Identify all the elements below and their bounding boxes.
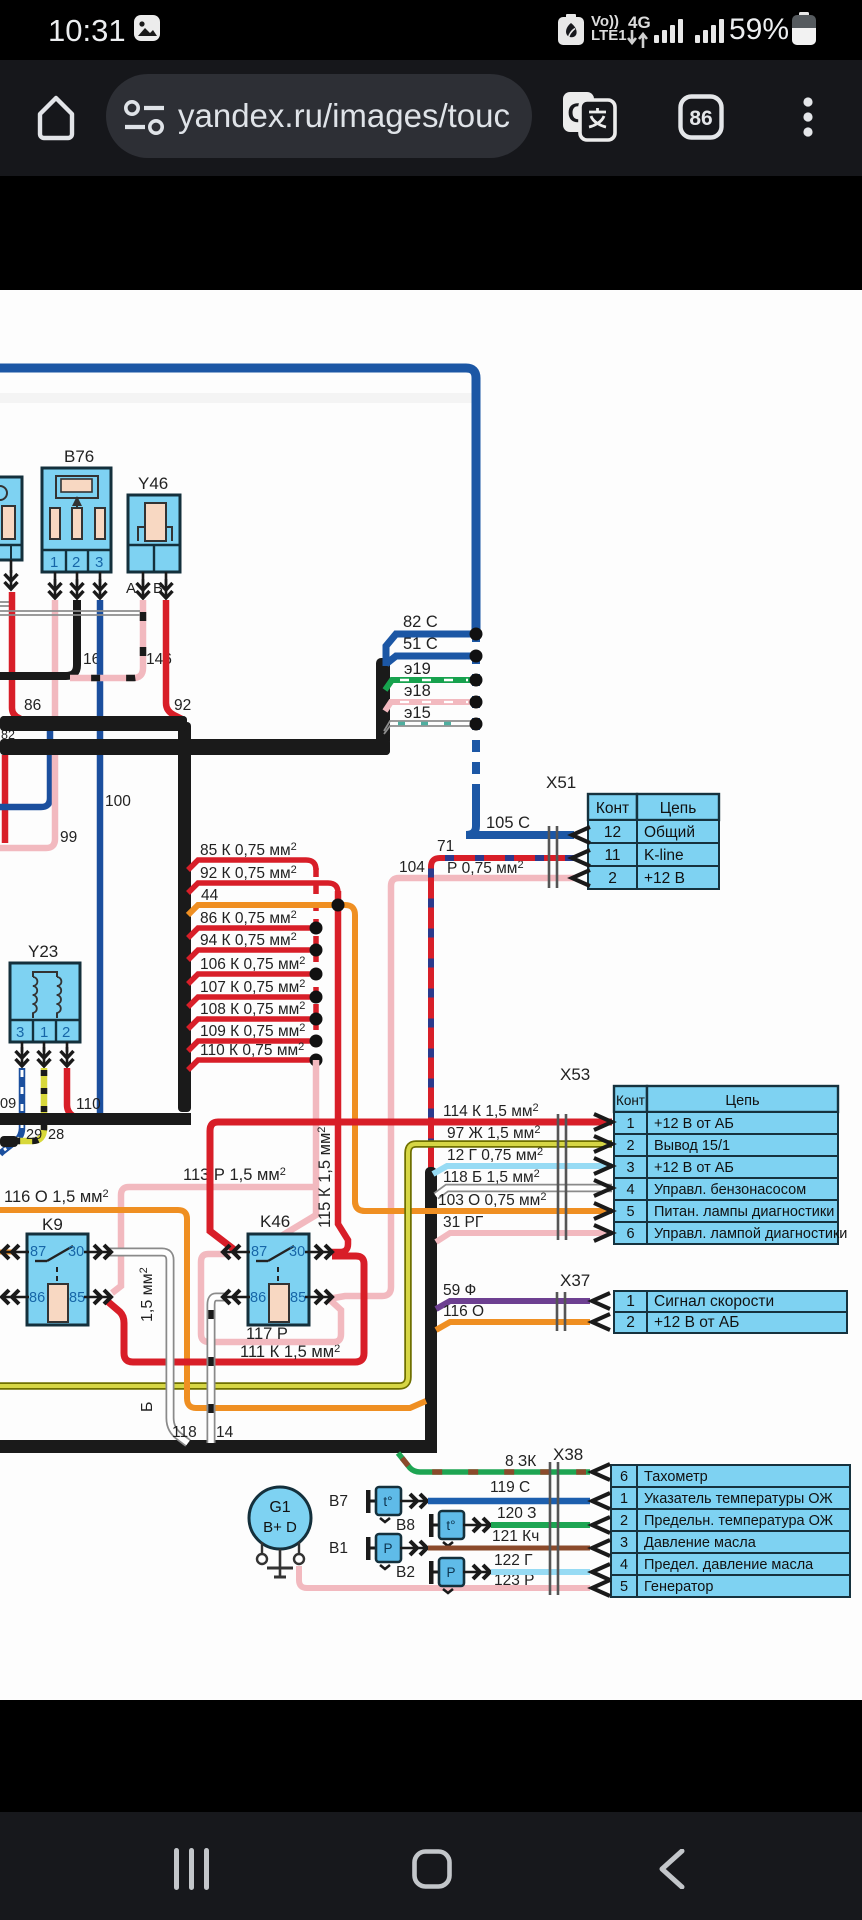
wire 92 K red (188, 883, 338, 893)
svg-text:t°: t° (383, 1494, 392, 1509)
svg-text:Конт: Конт (616, 1093, 645, 1108)
svg-text:109 К 0,75 мм2: 109 К 0,75 мм2 (200, 1022, 305, 1040)
wire 118 B white (436, 1188, 612, 1196)
wire 116 O orange to X37 (436, 1322, 590, 1330)
wire 118 white from K9.30 (106, 1252, 188, 1443)
svg-text:114 К 1,5 мм2: 114 К 1,5 мм2 (443, 1102, 539, 1120)
junction dot 751 (310, 1035, 323, 1048)
svg-text:P: P (383, 1541, 392, 1556)
wire blue B76 pin3 (97, 600, 104, 1117)
svg-text:82 С: 82 С (403, 613, 438, 631)
svg-text:99: 99 (60, 829, 77, 846)
sensor B2 out arrows (463, 1565, 491, 1579)
svg-text:86: 86 (29, 1290, 45, 1306)
svg-text:Конт: Конт (596, 800, 629, 817)
wire 107 K red (188, 997, 313, 1007)
wire 14 white striped from K46.86 (211, 1297, 228, 1443)
battery saver icon (557, 14, 585, 46)
svg-text:31 РГ: 31 РГ (443, 1214, 484, 1231)
svg-text:86: 86 (24, 697, 41, 714)
svg-text:11: 11 (604, 847, 620, 864)
svg-text:86: 86 (250, 1290, 266, 1306)
svg-text:B8: B8 (396, 1517, 415, 1534)
svg-text:5: 5 (626, 1204, 634, 1220)
wire 59 F purple (436, 1301, 590, 1309)
black harness riser to ECU wires (376, 658, 390, 746)
connector table X53 rows (614, 1112, 847, 1244)
svg-text:121 Кч: 121 Кч (492, 1528, 539, 1545)
status bar (0, 0, 862, 60)
junction dot 729 (310, 1013, 323, 1026)
svg-text:105 С: 105 С (486, 814, 530, 832)
svg-text:117 Р: 117 Р (246, 1325, 288, 1343)
svg-text:85: 85 (290, 1290, 306, 1306)
arrow X51 row12 (572, 827, 590, 843)
wire 110 red Y23 pin2 (67, 1068, 78, 1119)
svg-text:2: 2 (626, 1314, 635, 1331)
svg-text:110: 110 (76, 1096, 101, 1113)
sensor B1 out arrows (400, 1541, 428, 1555)
wire 103 O orange overlay across bus (355, 1195, 612, 1211)
screenshot notification icon (134, 15, 162, 43)
wire 85 K red (188, 860, 316, 870)
svg-text:+12 В от АБ: +12 В от АБ (654, 1314, 739, 1331)
svg-text:118: 118 (172, 1424, 197, 1441)
svg-text:Давление масла: Давление масла (644, 1535, 757, 1551)
svg-text:Тахометр: Тахометр (644, 1469, 708, 1485)
svg-text:51 С: 51 С (403, 635, 438, 653)
svg-text:87: 87 (30, 1244, 46, 1260)
svg-text:1: 1 (40, 1024, 48, 1041)
wire 44 orange (188, 905, 612, 1211)
svg-text:K-line: K-line (644, 847, 684, 864)
svg-text:+12 В от АБ: +12 В от АБ (654, 1116, 734, 1132)
wire pink B76 pin1 (52, 600, 59, 718)
arrows X37 (592, 1293, 610, 1309)
wire e18 pink (385, 702, 471, 711)
pin arrows Y46 A B (142, 572, 145, 585)
wire e15 gray pair (384, 721, 471, 731)
black harness stub left (0, 1136, 18, 1147)
svg-text:122 Г: 122 Г (494, 1552, 533, 1569)
svg-text:09: 09 (0, 1096, 16, 1112)
sensor B8 out arrows (463, 1518, 491, 1532)
connector table X37 (614, 1291, 847, 1333)
svg-text:Предел. давление масла: Предел. давление масла (644, 1557, 814, 1573)
svg-text:B76: B76 (64, 447, 94, 466)
svg-text:+12 В: +12 В (644, 870, 685, 887)
relay K9 (27, 1234, 88, 1325)
svg-text:6: 6 (626, 1226, 634, 1242)
svg-text:Предельн. температура ОЖ: Предельн. температура ОЖ (644, 1513, 834, 1529)
svg-text:104: 104 (399, 859, 425, 876)
tab counter (678, 94, 724, 140)
svg-text:э18: э18 (404, 682, 431, 700)
wire 51 C blue (386, 656, 471, 664)
black harness bar lower (0, 739, 390, 755)
svg-text:Вывод 15/1: Вывод 15/1 (654, 1138, 730, 1154)
svg-text:A: A (126, 580, 136, 597)
wire 121 Kch brown from B1 (428, 1546, 590, 1551)
connector ticks X51 (548, 826, 551, 888)
wire 8 ZK green from harness (398, 1453, 590, 1472)
svg-text:4: 4 (620, 1557, 628, 1573)
svg-text:Генератор: Генератор (644, 1579, 713, 1595)
svg-text:110 К 0,75 мм2: 110 К 0,75 мм2 (200, 1041, 304, 1059)
svg-text:118 Б 1,5 мм2: 118 Б 1,5 мм2 (443, 1168, 540, 1186)
arrows X38 (592, 1464, 610, 1480)
wire gray pair under pins (0, 610, 140, 612)
relay K46 (248, 1234, 309, 1325)
svg-text:Цепь: Цепь (725, 1093, 759, 1109)
wire gray pair from left component (0, 601, 11, 603)
svg-text:97 Ж 1,5 мм2: 97 Ж 1,5 мм2 (447, 1124, 540, 1142)
svg-text:92 К 0,75 мм2: 92 К 0,75 мм2 (200, 864, 297, 882)
wire 109 K red (188, 1041, 313, 1051)
component B76 coil/ignition module (42, 468, 111, 572)
signal bars 2 (695, 18, 729, 44)
svg-text:6: 6 (620, 1469, 628, 1485)
svg-text:30: 30 (68, 1244, 84, 1260)
wiring diagram image area (0, 290, 862, 1700)
svg-text:э19: э19 (404, 660, 431, 678)
wire 97 Zh yellow (0, 1144, 612, 1386)
arrow X51 row11 (572, 850, 590, 866)
wire 99 pink (0, 755, 55, 848)
sensor B2 (429, 1558, 464, 1593)
svg-text:Y46: Y46 (138, 474, 168, 493)
svg-text:8 ЗК: 8 ЗК (505, 1453, 536, 1470)
component Y23 idle valve (10, 963, 80, 1042)
black harness bar upper (0, 716, 187, 731)
svg-text:Б: Б (139, 1402, 156, 1413)
sensor B1 (366, 1534, 401, 1569)
junction dot 92K/44 (332, 899, 345, 912)
wire 111 K red loop K9.85 to K46.30 (106, 1256, 364, 1362)
sensor B8 (429, 1511, 464, 1546)
pin arrow left component (10, 560, 13, 573)
svg-text:t°: t° (446, 1518, 455, 1533)
svg-text:87: 87 (251, 1244, 267, 1260)
svg-text:Сигнал скорости: Сигнал скорости (654, 1293, 774, 1310)
svg-text:э15: э15 (404, 704, 431, 722)
svg-text:115 К 1,5 мм2: 115 К 1,5 мм2 (316, 1127, 334, 1228)
junction dot 660 (310, 944, 323, 957)
svg-text:71: 71 (437, 838, 454, 855)
svg-text:107 К 0,75 мм2: 107 К 0,75 мм2 (200, 978, 305, 996)
svg-text:B2: B2 (396, 1564, 415, 1581)
svg-text:3: 3 (626, 1160, 634, 1176)
junction dots on ECU line (470, 628, 483, 641)
svg-text:Р 0,75 мм2: Р 0,75 мм2 (447, 859, 524, 877)
connector table X53 (614, 1086, 838, 1112)
connector ticks X38 (549, 1462, 552, 1595)
svg-text:12 Г 0,75 мм2: 12 Г 0,75 мм2 (447, 1146, 543, 1164)
wire 105 C blue to X51 (466, 790, 574, 835)
wire ECU boundary blue dashed segment (472, 630, 480, 798)
svg-text:29: 29 (26, 1127, 42, 1143)
signal bars 1 (654, 18, 688, 44)
wire 117 P pink loop K46.87 to K46.85 (201, 1254, 341, 1342)
svg-text:B: B (153, 580, 163, 597)
wire 113 P pink horizontal (112, 1187, 316, 1293)
svg-text:116 О: 116 О (443, 1303, 484, 1320)
black harness bar upper overlay (0, 716, 187, 731)
black harness bar bottom (0, 1440, 437, 1453)
wire 85 K dashed drop with junctions (313, 868, 319, 1060)
junction dot 684 (310, 968, 323, 981)
junction dot 638 (310, 922, 323, 935)
wire 116 O orange left run (0, 1210, 426, 1408)
svg-text:X38: X38 (553, 1445, 583, 1464)
pin arrows B76 (54, 572, 57, 585)
junction dot 770 (310, 1054, 323, 1067)
sensor B7 out arrows (400, 1494, 428, 1508)
connector table X38 (611, 1465, 850, 1597)
svg-text:X53: X53 (560, 1065, 590, 1084)
svg-text:14: 14 (216, 1424, 234, 1441)
wire e19 green (385, 680, 471, 690)
wire Y23 pin1 yellow striped (14, 1068, 44, 1141)
connector table X51 rows (588, 820, 719, 889)
svg-text:Цепь: Цепь (660, 800, 697, 817)
junction dot 707 (310, 991, 323, 1004)
black harness bus vertical right (425, 1167, 437, 1449)
connector ticks X53 (557, 1114, 560, 1240)
wire stub orange K9.87 left (0, 1250, 12, 1255)
svg-text:106 К 0,75 мм2: 106 К 0,75 мм2 (200, 955, 305, 973)
svg-text:44: 44 (201, 887, 219, 904)
wire 71 K-line red/blue dashed (431, 858, 574, 1170)
wire 12 G light blue (433, 1166, 612, 1174)
svg-text:100: 100 (105, 793, 131, 810)
svg-text:3: 3 (620, 1535, 628, 1551)
svg-text:K9: K9 (42, 1215, 63, 1234)
svg-text:X51: X51 (546, 773, 576, 792)
connector table X51 (588, 794, 719, 820)
wire 100 blue (0, 731, 50, 807)
generator G1 (249, 1487, 311, 1577)
wire 119 C blue from B7 (428, 1498, 590, 1505)
wire 104 P pink from X51 (328, 878, 574, 1299)
svg-text:B1: B1 (329, 1540, 348, 1557)
svg-text:Управл. лампой диагностики: Управл. лампой диагностики (654, 1226, 847, 1242)
svg-text:Питан. лампы диагностики: Питан. лампы диагностики (654, 1204, 834, 1220)
svg-text:1: 1 (50, 554, 58, 571)
svg-text:94 К 0,75 мм2: 94 К 0,75 мм2 (200, 931, 297, 949)
svg-text:P: P (446, 1565, 455, 1580)
wire 123 P pink from G1 (299, 1566, 590, 1588)
arrow X51 row2 (572, 870, 590, 886)
svg-text:B7: B7 (329, 1493, 348, 1510)
wire 122 G light blue from B2 (491, 1569, 590, 1575)
svg-text:B+ D: B+ D (263, 1519, 297, 1536)
svg-text:3: 3 (95, 554, 103, 571)
wire 114 K red to X53 and K46.87 (210, 1122, 612, 1251)
svg-text:111 К 1,5 мм2: 111 К 1,5 мм2 (240, 1343, 340, 1361)
svg-text:2: 2 (72, 554, 80, 571)
svg-text:86: 86 (689, 107, 712, 130)
svg-text:116 О 1,5 мм2: 116 О 1,5 мм2 (4, 1188, 109, 1206)
svg-text:85 К 0,75 мм2: 85 К 0,75 мм2 (200, 841, 297, 859)
wire 92 red from Y46 B (166, 600, 182, 719)
pin arrows Y23 (21, 1042, 24, 1052)
wire red left edge (2, 755, 9, 843)
svg-text:59 Ф: 59 Ф (443, 1282, 476, 1299)
svg-text:108 К 0,75 мм2: 108 К 0,75 мм2 (200, 1000, 305, 1018)
black harness bar 110 to bus (0, 1113, 191, 1125)
svg-text:5: 5 (620, 1579, 628, 1595)
black harness bus vertical left (178, 722, 191, 1112)
relay K46 pin arrows (222, 1245, 250, 1259)
svg-text:2: 2 (62, 1024, 70, 1041)
wire 115 K red drop to K46 (331, 891, 348, 1252)
svg-text:119 С: 119 С (490, 1479, 530, 1496)
wire 94 K red (188, 950, 313, 960)
svg-text:X37: X37 (560, 1271, 590, 1290)
svg-text:30: 30 (289, 1244, 305, 1260)
wire ECU boundary blue top (0, 368, 476, 630)
svg-text:1: 1 (626, 1293, 635, 1310)
svg-text:Указатель температуры ОЖ: Указатель температуры ОЖ (644, 1491, 833, 1507)
wire Y23 pin3 blue striped (0, 1068, 22, 1154)
svg-text:92: 92 (174, 697, 191, 714)
svg-text:2: 2 (626, 1138, 634, 1154)
component Y46 solenoid (128, 495, 180, 572)
svg-text:120 З: 120 З (497, 1505, 537, 1522)
wire black B76 pin2 (0, 600, 77, 676)
wire 110 K red (188, 1060, 313, 1070)
svg-text:1,5 мм2: 1,5 мм2 (138, 1267, 156, 1322)
svg-text:1: 1 (620, 1491, 628, 1507)
svg-text:2: 2 (620, 1513, 628, 1529)
svg-text:1: 1 (626, 1116, 634, 1132)
wire 86 K red (188, 928, 313, 938)
wire 106 K red (188, 974, 313, 984)
black harness bar lower overlay (0, 739, 390, 755)
wire 82 C blue (386, 634, 471, 666)
arrows X53 (594, 1114, 612, 1130)
connector ticks X37 (556, 1292, 559, 1331)
svg-text:G1: G1 (269, 1499, 290, 1516)
svg-text:K46: K46 (260, 1212, 290, 1231)
battery icon (791, 12, 819, 46)
svg-text:Управл. бензонасосом: Управл. бензонасосом (654, 1182, 806, 1198)
menu kebab (799, 94, 817, 142)
relay K9 pin arrows (1, 1245, 29, 1259)
sensor B7 (366, 1487, 401, 1522)
android nav bar (0, 1812, 862, 1920)
browser toolbar (0, 60, 862, 176)
page info (tune) icon (122, 98, 168, 138)
wire 146 pink dashed from Y46 A (70, 600, 143, 678)
svg-text:28: 28 (48, 1127, 64, 1143)
wire 31 RG pink (436, 1233, 612, 1242)
svg-text:Общий: Общий (644, 824, 695, 841)
svg-text:+12 В от АБ: +12 В от АБ (654, 1160, 734, 1176)
svg-text:2: 2 (608, 870, 617, 887)
translate icon (560, 88, 618, 144)
wire 108 K red (188, 1019, 313, 1029)
svg-text:Y23: Y23 (28, 942, 58, 961)
wire 113 P pink drop from junction (253, 1060, 316, 1253)
home button icon (34, 90, 78, 144)
svg-text:103 О 0,75 мм2: 103 О 0,75 мм2 (438, 1191, 546, 1209)
svg-text:3: 3 (16, 1024, 24, 1041)
wire 86 red from left component (12, 592, 26, 722)
svg-text:85: 85 (69, 1290, 85, 1306)
svg-text:12: 12 (604, 824, 621, 841)
wire 120 Z green from B8 (491, 1522, 590, 1528)
svg-text:4: 4 (626, 1182, 634, 1198)
svg-text:86 К 0,75 мм2: 86 К 0,75 мм2 (200, 909, 297, 927)
component partial connector at left edge (0, 477, 22, 560)
svg-text:113 Р 1,5 мм2: 113 Р 1,5 мм2 (183, 1166, 286, 1184)
